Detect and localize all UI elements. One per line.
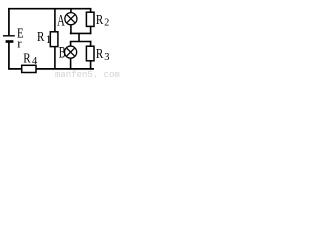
wire lamp A top tick bbox=[70, 9, 72, 13]
svg-text:R: R bbox=[96, 13, 104, 28]
wire R1 lower bbox=[54, 47, 56, 69]
wire lamp B bottom bbox=[70, 58, 72, 70]
svg-text:R: R bbox=[96, 47, 104, 62]
svg-text:R: R bbox=[23, 52, 31, 67]
resistor R2 bbox=[86, 12, 94, 26]
wire lamp B top tick bbox=[70, 42, 72, 47]
svg-text:4: 4 bbox=[32, 56, 38, 67]
wire right top column bbox=[90, 8, 92, 12]
bus node lower bbox=[70, 41, 92, 43]
svg-text:1: 1 bbox=[46, 34, 52, 46]
svg-text:B: B bbox=[59, 44, 66, 61]
wire bottom bbox=[8, 68, 94, 70]
resistor R1 bbox=[50, 32, 58, 47]
wire top bbox=[8, 8, 91, 10]
wire R2 bottom bbox=[90, 26, 92, 34]
svg-text:3: 3 bbox=[104, 52, 109, 63]
wire middle link bbox=[78, 33, 80, 41]
wire R3 top bbox=[90, 41, 92, 47]
svg-text:r: r bbox=[17, 36, 22, 51]
lamp B bbox=[65, 46, 77, 58]
resistor R4 bbox=[22, 65, 36, 72]
battery short plate bbox=[6, 40, 14, 43]
battery long plate E bbox=[3, 35, 15, 37]
svg-text:R: R bbox=[37, 30, 45, 45]
wire left lower bbox=[8, 43, 10, 70]
svg-text:A: A bbox=[57, 12, 65, 29]
svg-text:2: 2 bbox=[104, 17, 109, 28]
resistor R3 bbox=[86, 46, 94, 61]
lamp A bbox=[65, 13, 77, 25]
svg-text:manfen5. com: manfen5. com bbox=[55, 70, 120, 77]
wire R3 bottom bbox=[90, 61, 92, 70]
wire lamp A bottom bbox=[70, 24, 72, 34]
wire R1 upper bbox=[54, 9, 56, 33]
wire left upper bbox=[8, 8, 10, 35]
bus node upper bbox=[70, 32, 92, 34]
